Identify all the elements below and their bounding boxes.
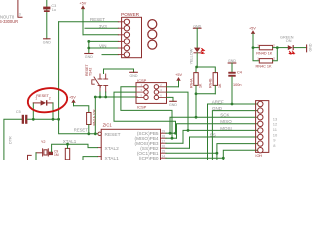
svg-text:GND: GND [43, 41, 51, 45]
regulator IC box edge (cropped top-left) [18, 0, 22, 17]
svg-text:XTAL1: XTAL1 [105, 156, 120, 160]
svg-text:GND: GND [85, 55, 93, 59]
wire VIN to POWER pin6 [102, 54, 118, 56]
svg-text:ZIC1: ZIC1 [103, 123, 113, 128]
svg-text:RESET: RESET [36, 94, 49, 98]
wire reset to IC pin [59, 119, 98, 134]
svg-text:RN4B: RN4B [209, 78, 213, 88]
svg-text:+5V: +5V [79, 2, 86, 6]
svg-text:2: 2 [49, 97, 51, 101]
annotation ellipse [26, 86, 69, 115]
wire reset net [95, 96, 137, 98]
svg-text:B-3300UR: B-3300UR [0, 19, 18, 24]
connector corner bottom-left [28, 155, 32, 160]
connector X1 power jack pads [148, 20, 157, 49]
wire C3 vertical [46, 0, 48, 39]
capacitor C9 [49, 152, 53, 155]
svg-text:16: 16 [162, 144, 166, 148]
wire XTAL2 net [83, 157, 98, 160]
svg-text:XTAL2: XTAL2 [105, 146, 120, 152]
wire ICSP GND [167, 97, 174, 101]
svg-text:100n: 100n [233, 83, 241, 87]
svg-text:3: 3 [19, 13, 21, 17]
svg-text:1K: 1K [199, 83, 203, 88]
wire +5V to POWER pin3 [83, 34, 118, 36]
svg-text:+5V: +5V [175, 73, 182, 77]
wire ICSP SCK to IC [114, 92, 176, 133]
svg-text:1K: 1K [218, 83, 222, 88]
ground power header [85, 53, 93, 55]
wire button bottom pins [99, 92, 101, 97]
wire GND to POWER pin4 [89, 40, 119, 42]
svg-text:DTR: DTR [8, 136, 12, 144]
svg-text:RESET: RESET [105, 132, 121, 138]
svg-text:1M: 1M [54, 153, 59, 157]
svg-text:RN1A 10K: RN1A 10K [92, 108, 96, 125]
svg-text:RN4D 1K: RN4D 1K [256, 51, 273, 55]
svg-text:C4: C4 [237, 70, 242, 74]
wire ICSP +5V [167, 86, 179, 88]
wire LED resistor branch [196, 67, 215, 73]
svg-text:GND: GND [228, 59, 236, 63]
junction [87, 40, 90, 43]
RN4D RN4C pin numbers [257, 43, 275, 60]
IOH pin numbers 13-8 [273, 116, 278, 147]
svg-text:ICSP: ICSP [137, 105, 147, 110]
svg-text:IOH: IOH [255, 154, 262, 158]
ground button [130, 71, 138, 73]
resistor RN4C 1K parallel loop [253, 48, 259, 61]
wire to green LED [277, 47, 288, 49]
svg-text:18: 18 [162, 134, 166, 138]
svg-text:GND: GND [169, 103, 177, 107]
resistor R2 1M [65, 148, 69, 159]
resistor RN4D 1K [253, 47, 259, 49]
svg-text:RN4C 1K: RN4C 1K [256, 65, 273, 69]
svg-text:19: 19 [162, 129, 166, 133]
wire +5V to resistor [74, 106, 89, 113]
capacitor C4 100n [228, 72, 235, 74]
svg-text:15: 15 [162, 149, 166, 153]
IC xtal pin stubs [98, 147, 102, 149]
svg-text:13: 13 [273, 116, 278, 121]
wire GND bridge vertical [88, 41, 90, 53]
wire LED drop to SCK [195, 94, 197, 117]
svg-text:TS42: TS42 [89, 68, 93, 76]
svg-text:1: 1 [35, 97, 37, 101]
wire reset net to IC [94, 97, 96, 134]
svg-text:12: 12 [273, 122, 278, 127]
crystal left wire [35, 153, 37, 160]
svg-text:14: 14 [162, 154, 166, 158]
IC right pin stubs [161, 133, 167, 158]
wire ICSP MISO to IC [121, 87, 172, 138]
svg-text:Y2: Y2 [41, 140, 46, 144]
svg-text:RN4A: RN4A [189, 78, 193, 88]
svg-text:+5V: +5V [69, 95, 76, 99]
ground below C3 [44, 38, 50, 40]
connector IOH [256, 101, 269, 153]
ground ICSP [170, 100, 177, 102]
wire ICSP MOSI drop [167, 92, 189, 130]
IC pin wires [166, 132, 176, 134]
svg-text:1u: 1u [52, 8, 56, 12]
wire resistor bottoms join [195, 85, 197, 93]
wire net 8 [223, 150, 257, 160]
wire C5 to reset rail [27, 118, 58, 120]
svg-text:GND: GND [308, 43, 312, 51]
wire RESET rail vertical [58, 22, 60, 120]
svg-text:+5V: +5V [249, 27, 256, 31]
svg-text:(ICP)PB0: (ICP)PB0 [139, 156, 159, 160]
ICSP pin numbers [141, 83, 163, 98]
svg-text:C5: C5 [16, 110, 21, 114]
resistor RN1A 10K [87, 113, 91, 125]
svg-text:10: 10 [273, 132, 278, 137]
svg-text:XTAL1: XTAL1 [63, 139, 77, 144]
ground green LED rotated [306, 45, 308, 52]
wire net 9 [217, 144, 258, 160]
svg-text:RESET: RESET [74, 128, 88, 133]
wire button top to gnd [103, 69, 105, 74]
svg-text:17: 17 [162, 139, 166, 143]
svg-text:YELLOW: YELLOW [190, 48, 194, 64]
capacitor C3 [43, 7, 50, 10]
IC pin numbers right [162, 129, 166, 158]
svg-text:ON: ON [286, 39, 292, 43]
